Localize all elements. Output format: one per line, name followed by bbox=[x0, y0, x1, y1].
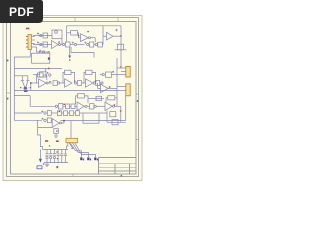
ref R2 bbox=[78, 35, 80, 36]
ref U4A bbox=[109, 86, 111, 87]
zone label right B bbox=[137, 100, 139, 102]
ref power stub bbox=[69, 59, 70, 60]
ref bank mid2 bbox=[57, 158, 58, 159]
zone tick left bbox=[7, 92, 11, 94]
net glyph R1 bbox=[80, 157, 84, 160]
wire left trunk bbox=[13, 57, 15, 120]
row4 chain bbox=[14, 118, 52, 123]
op-amp U2B bbox=[39, 79, 49, 87]
wire chain2 bbox=[33, 44, 52, 46]
plus symbol net bbox=[115, 29, 118, 32]
wire top run bbox=[67, 25, 121, 27]
label M1 pin bbox=[48, 57, 50, 59]
zone tick bottom bbox=[72, 174, 74, 177]
op-amp U3A bbox=[65, 79, 73, 87]
relay K1 box bbox=[52, 30, 62, 45]
wire drop left x66.6 bbox=[67, 26, 81, 42]
wire U2B input bbox=[31, 83, 39, 90]
trunk x117 bbox=[116, 58, 118, 98]
op-amp U2A bbox=[103, 32, 121, 40]
zone tick right bbox=[136, 93, 139, 95]
power flag arrow bbox=[39, 149, 42, 162]
ref chain3 bbox=[48, 51, 50, 52]
schematic page sheet bbox=[3, 16, 142, 181]
ref J2 bbox=[120, 66, 121, 67]
row2 out chain bbox=[85, 96, 105, 109]
junction blob caps bbox=[24, 87, 28, 90]
zone label left B bbox=[7, 98, 9, 100]
capacitor C3 bbox=[115, 44, 127, 50]
cap bank C14 bbox=[53, 149, 56, 162]
wire long bus bbox=[14, 89, 117, 91]
cap bank C16 bbox=[60, 149, 63, 162]
ref U1B bbox=[87, 31, 89, 32]
connector J4 bbox=[66, 138, 78, 142]
zone label bottom 1 bbox=[121, 175, 123, 177]
zone label left C bbox=[7, 60, 9, 62]
svg-text:PDF: PDF bbox=[9, 5, 34, 19]
connector J3 stubs bbox=[117, 87, 126, 91]
cap bank C12 bbox=[45, 149, 48, 162]
capacitor C7 and ground bbox=[54, 129, 59, 138]
ref bank low bbox=[43, 163, 44, 164]
feedback loop U3B bbox=[84, 70, 96, 83]
output chain U1B bbox=[91, 26, 104, 45]
junction dot long wire bbox=[63, 120, 65, 122]
cap bank C15 bbox=[57, 149, 60, 162]
resistor R6 chain bbox=[100, 72, 126, 77]
wire chain1 top bbox=[33, 35, 52, 37]
op-amp U5B bbox=[52, 119, 64, 128]
junction dash on bus bbox=[24, 91, 28, 92]
connector J3 bbox=[126, 84, 130, 96]
wire into U4A bbox=[98, 83, 101, 88]
ref row3 right bbox=[120, 110, 122, 111]
feedback loop U5A bbox=[76, 94, 89, 104]
ground bank bbox=[45, 163, 49, 167]
ref R6 bbox=[112, 71, 114, 72]
plus mark C8 bbox=[39, 50, 41, 52]
resistor chain after U1A bbox=[60, 42, 74, 47]
capacitor chain mid2 bbox=[87, 42, 103, 47]
drop to J4 bbox=[70, 121, 72, 139]
zone tick top bbox=[74, 18, 76, 22]
op-amp U1A bbox=[52, 41, 61, 49]
junction dot U2B input bbox=[30, 82, 32, 84]
cap bank C17 bbox=[64, 149, 67, 162]
red reference designator marks bbox=[20, 28, 122, 169]
feedback loop U4B bbox=[106, 96, 117, 107]
ref C7 bbox=[56, 130, 57, 131]
chain U2B out bbox=[48, 81, 64, 86]
wire row2 feed bbox=[14, 96, 55, 107]
ref bank dot bbox=[49, 145, 50, 146]
capacitor C2 bbox=[40, 42, 48, 47]
cap rail top left bbox=[14, 75, 28, 77]
resistor loop row3 bbox=[83, 113, 107, 123]
row3 chain left bbox=[14, 110, 57, 115]
power flag mid (down arrow) bbox=[68, 47, 71, 58]
capacitor C8 bbox=[42, 51, 44, 53]
ref bank mid bbox=[56, 151, 57, 152]
ref U3A bbox=[74, 81, 75, 82]
feedback loop U3A bbox=[63, 70, 75, 83]
zone tick right low bbox=[136, 139, 139, 141]
ref U1A bbox=[58, 42, 60, 43]
ref C10 bbox=[20, 87, 21, 88]
zone tick top right bbox=[117, 18, 119, 22]
capacitor C1 bbox=[40, 33, 48, 38]
PDF badge bbox=[0, 0, 43, 23]
op-amp U4B bbox=[105, 102, 121, 110]
white background bbox=[0, 0, 149, 198]
ref U4B bbox=[114, 104, 116, 105]
resistor R4 bbox=[33, 69, 51, 78]
plus mark C2 bbox=[37, 41, 39, 43]
cap bank C13 bbox=[49, 149, 52, 162]
capacitor C10 (polarized) bbox=[21, 76, 25, 88]
ref J1 pin4 bbox=[26, 47, 27, 48]
title block bbox=[98, 157, 136, 174]
junction top right bbox=[120, 35, 122, 36]
connector J2 stubs bbox=[117, 68, 126, 72]
plus mark C1 bbox=[37, 32, 39, 34]
ref U5B bbox=[59, 111, 61, 112]
wire mid horiz bbox=[71, 47, 94, 58]
plus mark chain mid2 bbox=[84, 42, 86, 44]
ref J1 pin1 bbox=[26, 36, 27, 37]
sheet outer border frame bbox=[7, 18, 139, 177]
capacitor chain mid bbox=[74, 43, 84, 45]
op-amp U1B bbox=[81, 34, 91, 42]
drop U4B out bbox=[120, 106, 122, 122]
connector J2 bbox=[126, 66, 130, 77]
ref row2 bbox=[64, 104, 65, 105]
right network row3 bbox=[107, 111, 126, 125]
net label box bottom left bbox=[37, 166, 42, 169]
ref M1 bbox=[48, 68, 50, 69]
row3 boxes bbox=[58, 111, 84, 116]
op-amp U3B bbox=[86, 79, 94, 87]
ref J1 pin2 bbox=[26, 40, 27, 41]
ref bottom left bbox=[56, 166, 58, 168]
wire below J1 bbox=[14, 50, 30, 58]
wire bus A bbox=[14, 68, 62, 70]
J4 pin fanout bbox=[67, 143, 96, 157]
long return wire bbox=[61, 96, 126, 121]
ref pwr label 1 bbox=[45, 140, 48, 142]
chain U3A-U3B bbox=[74, 81, 85, 86]
ref pwr label 2 bbox=[56, 140, 59, 142]
row2 input chain bbox=[55, 104, 77, 109]
ref J1 label bbox=[26, 28, 29, 30]
ref J1 pin3 bbox=[26, 43, 27, 44]
plus mark chain mid bbox=[72, 42, 74, 44]
wire right trunk upper bbox=[120, 26, 122, 67]
wire U5B lower input bbox=[38, 120, 53, 127]
wire to power bank bbox=[38, 128, 43, 150]
ref R4 bbox=[47, 72, 48, 73]
ref U2B out bbox=[49, 81, 50, 82]
op-amp U5A bbox=[77, 102, 84, 111]
net glyph R3 bbox=[94, 157, 98, 160]
mute block M1 bbox=[32, 51, 50, 63]
feedback resistor R2 bbox=[67, 31, 79, 38]
sheet inner border frame bbox=[11, 22, 137, 175]
capacitor C11 (polarized) bbox=[26, 76, 30, 88]
feedback loop U2B bbox=[37, 73, 47, 83]
power bank buses bbox=[43, 149, 69, 162]
op-amp U4A bbox=[101, 84, 118, 92]
ref C11 bbox=[30, 87, 31, 88]
chain U3B out bbox=[93, 81, 103, 86]
net glyph R2 bbox=[87, 157, 91, 160]
ref U3B bbox=[95, 81, 96, 82]
connector J1 bbox=[28, 35, 35, 50]
wire chain3 from J1 bbox=[35, 47, 48, 53]
